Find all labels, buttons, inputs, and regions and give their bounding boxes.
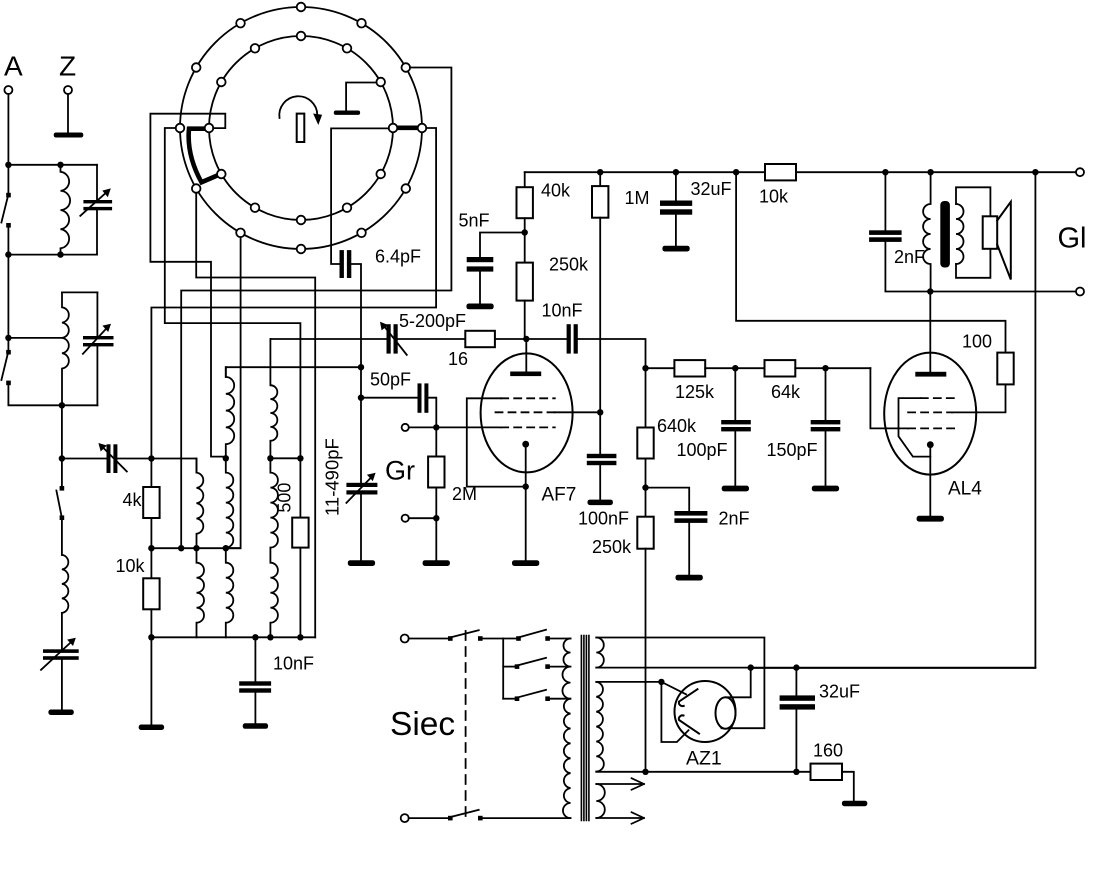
AF7 top cap connection <box>525 339 527 372</box>
variable capacitor C2 (tank2) <box>96 292 98 336</box>
ground (100pF) <box>722 486 749 492</box>
wire: mains upper to switch <box>409 638 451 640</box>
capacitor 150pF <box>825 368 827 420</box>
wire: outer 0 contact loop to 4k top junction <box>151 128 436 458</box>
node: A at tank2 tap <box>5 335 11 341</box>
wire: inner 0 contact to 6.4pF capacitor <box>331 128 389 264</box>
output transformer secondary <box>956 204 964 264</box>
svg-text:AL4: AL4 <box>948 479 982 500</box>
resistor R 500 <box>299 458 301 517</box>
svg-text:100: 100 <box>962 332 992 352</box>
wire: A terminal down <box>7 94 9 195</box>
wire: tank2 bottom down to tuning line <box>61 405 63 458</box>
capacitor 50pF <box>418 383 422 412</box>
node: 10nF junction on bottom rail <box>252 634 258 640</box>
rotary band switch S1 inner ring <box>209 36 393 220</box>
wire: 1M down to AF7 anode node <box>599 218 601 454</box>
wire: left branch below tuning line <box>61 459 63 489</box>
AL4 cathode <box>927 441 934 448</box>
wire: 16 to AF7 grid node <box>495 338 567 340</box>
output transformer core <box>940 201 950 268</box>
resistor R 1M <box>599 172 601 186</box>
svg-text:100nF: 100nF <box>578 509 629 529</box>
capacitor 100nF <box>587 454 617 458</box>
node: 150pF junction <box>822 365 828 371</box>
AF7 cathode <box>522 441 529 448</box>
S1 rotation arrow <box>279 96 317 118</box>
S1 outer ring contacts <box>176 3 427 254</box>
ground (10nF) <box>243 723 268 729</box>
svg-text:Gr: Gr <box>385 456 415 486</box>
terminal A <box>4 86 12 94</box>
svg-text:Siec: Siec <box>390 706 455 743</box>
inductor column3 upper small coil <box>270 385 277 458</box>
wire: inner 180 contact loop to coil column 2 <box>150 114 225 459</box>
svg-text:500: 500 <box>275 483 295 513</box>
S1 inner ring contacts <box>205 32 398 225</box>
HV winding B bottom rail <box>596 771 810 773</box>
ground (bus) <box>348 560 375 566</box>
tap selector line 2 <box>503 666 517 668</box>
ground under Z <box>54 133 84 138</box>
resistor R 10k (decoupling) <box>765 164 796 180</box>
svg-text:11-490pF: 11-490pF <box>322 438 343 516</box>
capacitor 2nF (tone) <box>884 172 886 230</box>
svg-text:Z: Z <box>59 51 76 82</box>
tank1 bottom rail <box>8 254 97 256</box>
wire: HV winding B top to AZ1 anodes <box>596 681 661 683</box>
wire: 40k to 250k <box>524 218 526 262</box>
node: tuning line left <box>59 455 65 461</box>
node: 5nF junction <box>522 229 528 235</box>
svg-text:Gl: Gl <box>1058 223 1087 255</box>
power transformer core <box>581 636 589 821</box>
S1 shaft slot <box>297 114 305 142</box>
node: 2M bottom <box>433 515 439 521</box>
wire: outer 210 contact to coil rail right end <box>196 193 315 638</box>
wire: 250k second down to heater rail <box>645 549 647 772</box>
svg-text:4k: 4k <box>123 490 143 510</box>
wire: 50pF line <box>361 397 418 399</box>
resistor R 64k <box>765 360 796 376</box>
ground (32uF) <box>662 246 689 252</box>
mechanical link (dashed) <box>465 631 467 818</box>
node: 10k bottom junction <box>148 634 154 640</box>
node: B+ rail at 1M <box>597 169 603 175</box>
ground (5nF) <box>466 304 493 310</box>
wire: 160 to ground <box>842 772 854 801</box>
wire: tuning line to coil column1 top <box>151 459 196 473</box>
variable trimmer 5-200pF <box>387 324 391 353</box>
AZ1 upper anode plate <box>679 689 698 706</box>
power transformer heater winding <box>596 784 605 818</box>
wire: switch to coil <box>61 520 63 555</box>
node: 4k/10k junction <box>148 545 154 551</box>
coil bottom rail <box>151 636 315 638</box>
node: B+ rail at 2nF speaker <box>882 169 888 175</box>
node: column3 at bottom rail <box>267 634 273 640</box>
wire: grid chain to AL4 grid <box>870 368 908 428</box>
terminal mains lower <box>401 814 409 822</box>
node: B+ at AZ1 cathode <box>748 664 754 670</box>
svg-text:5nF: 5nF <box>459 211 490 231</box>
ground (2nF) <box>676 575 703 581</box>
rectifier tube AZ1 envelope <box>675 681 736 742</box>
node: AF7 top cap node <box>523 336 529 342</box>
resistor R 160 <box>811 764 843 780</box>
inductor column2 middle coil <box>226 458 234 547</box>
svg-text:2nF: 2nF <box>894 247 925 267</box>
switch tap2 <box>515 664 520 669</box>
wire: 2nF to anode rail <box>885 242 930 292</box>
wire: 32uF to HV bottom rail <box>795 710 797 772</box>
ground (left branch) <box>48 710 73 716</box>
svg-text:32uF: 32uF <box>691 179 732 199</box>
tap selector line 3 <box>503 698 517 700</box>
tank2 top rail <box>62 291 97 293</box>
wire: 640k to 250k second <box>645 459 647 517</box>
svg-text:50pF: 50pF <box>370 370 411 390</box>
svg-text:150pF: 150pF <box>767 440 818 460</box>
node: tank2 bottom junction <box>59 402 65 408</box>
tap selector vertical <box>502 639 504 699</box>
resistor R 100 <box>997 353 1013 385</box>
capacitor 6.4pF <box>340 250 344 278</box>
wire: mains lower to switch <box>409 817 451 819</box>
resistor R 40k <box>524 172 526 187</box>
wire: tuning line with trimmer <box>62 458 107 460</box>
inductor column3 middle coil <box>270 458 278 547</box>
svg-text:32uF: 32uF <box>819 682 860 702</box>
resistor R 640k <box>642 365 648 371</box>
svg-text:160: 160 <box>813 741 843 761</box>
output transformer primary <box>923 172 930 291</box>
node: B+ rail right <box>1032 169 1038 175</box>
AF7 grid rows (dashed) <box>501 397 555 399</box>
wire: to 5nF <box>480 233 525 258</box>
svg-text:2nF: 2nF <box>719 509 750 529</box>
svg-text:100pF: 100pF <box>677 440 728 460</box>
wire: 10k to bottom rail and ground <box>150 609 152 724</box>
ground at S1 inner 30deg contact <box>346 83 376 111</box>
resistor R 4k <box>150 459 152 488</box>
terminal mains upper <box>401 635 409 643</box>
wire: 4k to 10k <box>150 518 152 578</box>
svg-text:640k: 640k <box>657 416 697 436</box>
inductor column2 top coil <box>226 367 234 458</box>
wire: screen feed down and right to 100 resistor <box>736 172 1005 352</box>
heater winding arrows <box>596 778 644 790</box>
switch on left branch <box>60 486 65 491</box>
wire: switch to tap selector <box>480 638 518 640</box>
switch on A line (lower) <box>6 350 11 355</box>
wire: outer 240 contact down to coil column 2 junction <box>226 237 241 548</box>
resistor R 250k (second) <box>637 517 653 549</box>
node: AZ1 anode node <box>658 679 664 685</box>
wire: 5-200pF line down to column3 <box>269 339 271 385</box>
wire: to 2nF <box>646 488 690 511</box>
resistor R 16 <box>465 331 495 347</box>
node: 500 at bottom rail <box>297 634 303 640</box>
vacuum tube AL4 envelope <box>884 353 976 475</box>
node: B+ rail at 32uF <box>673 169 679 175</box>
inductor column1 upper coil <box>197 459 204 549</box>
wire: A line between switches <box>7 227 9 352</box>
S1 rotor wiper left (thick) <box>189 129 223 183</box>
node: bus at column2 line <box>358 364 364 370</box>
wire: column2 top line to long vertical bus <box>226 367 361 377</box>
wire: HV winding A top around AZ1 to filament <box>596 638 764 729</box>
wire: anode node diagonal to upper anode <box>661 682 686 694</box>
AF7 g3 tie wire to cathode <box>467 398 526 486</box>
wire: anode node loop to lower anode <box>661 682 688 742</box>
terminal Gr upper <box>402 424 409 431</box>
node: heater rail at 250k drop <box>642 769 648 775</box>
loudspeaker <box>983 216 998 249</box>
ground (2M) <box>423 560 450 566</box>
node: 500 resistor top <box>297 455 303 461</box>
node: 100pF junction <box>732 365 738 371</box>
wire: trimmer to resistor 16 <box>398 338 466 340</box>
svg-text:10nF: 10nF <box>542 301 583 321</box>
rotary band switch S1 outer ring <box>180 7 422 249</box>
svg-text:250k: 250k <box>592 537 632 557</box>
wire: 32uF to ground <box>675 215 677 246</box>
node: AF7 anode / 100nF <box>597 409 603 415</box>
node: junction line at dial wire <box>178 545 184 551</box>
capacitor 10nF (coupling) <box>567 324 571 353</box>
switch mains lower <box>448 816 453 821</box>
capacitor 10nF (IF bypass) <box>254 637 256 681</box>
capacitor 2nF (AF7) <box>674 511 707 516</box>
svg-text:40k: 40k <box>541 181 571 201</box>
node: A at tank1 top <box>5 162 11 168</box>
node: heater rail at 32uF <box>793 769 799 775</box>
wire: B+ down to filament <box>727 668 751 698</box>
resistor R 250k (screen) <box>517 263 533 301</box>
svg-text:AF7: AF7 <box>542 485 577 506</box>
wire: 100pF to ground <box>734 431 736 485</box>
capacitor 5nF <box>467 257 494 262</box>
wire: 6.4pF to long vertical bus <box>351 264 361 484</box>
power transformer HV winding A <box>596 638 604 668</box>
resistor R 125k <box>674 360 705 376</box>
svg-text:5-200pF: 5-200pF <box>399 311 466 331</box>
wire: 150pF to ground <box>825 431 827 485</box>
power transformer primary winding <box>562 639 570 819</box>
speaker bottom rail to terminal <box>930 291 1076 293</box>
wire: Gr lower to 2M bottom <box>409 517 437 519</box>
inductor column2 lower coil <box>226 548 234 637</box>
terminal Gl feed upper <box>1076 168 1084 176</box>
inductor L2 (tank2 coil, tapped) <box>62 292 69 405</box>
terminal Gl feed lower <box>1076 288 1084 296</box>
AL4 g3 tie to cathode <box>899 398 931 457</box>
svg-text:10nF: 10nF <box>273 654 314 674</box>
node: column2 top junction <box>223 455 229 461</box>
svg-text:1M: 1M <box>625 188 650 208</box>
wire: Gr upper to grid wire <box>409 426 501 428</box>
node: 640k bottom / 2nF <box>642 484 648 490</box>
node: column3 junction <box>267 455 273 461</box>
tank1 top rail <box>8 164 97 166</box>
speaker loop <box>956 187 990 277</box>
switch mains upper <box>448 636 453 641</box>
AL4 screen out to 100 resistor <box>952 384 1005 412</box>
wire: switch to transformer primary bottom <box>480 817 570 819</box>
wire: HV winding A bottom = B+ rail <box>596 667 1035 669</box>
node: junction line at column1 <box>193 545 199 551</box>
wire: 100nF to ground <box>599 465 601 499</box>
power transformer HV winding B <box>596 682 604 772</box>
wire: tank2 tap <box>8 337 62 339</box>
node: AL4 anode at bottom rail <box>927 288 933 294</box>
node: input node <box>433 424 439 430</box>
ground (100nF) <box>588 500 613 506</box>
switch on A line (upper) <box>6 193 11 198</box>
wire: column3 to 500 resistor top <box>270 457 300 459</box>
capacitor 32uF (filter) <box>675 172 677 200</box>
wire: coil to variable capacitor <box>61 613 63 649</box>
inductor column1 lower coil <box>197 548 205 637</box>
grid chain line 125k/64k <box>646 367 675 369</box>
node: B+ at 32uF second <box>793 664 799 670</box>
wire: A line to tank2 bottom rail <box>8 385 97 405</box>
inductor column3 lower coil <box>270 548 278 638</box>
svg-text:16: 16 <box>448 349 468 369</box>
inductor L1 (tank1 coil) <box>61 165 71 255</box>
svg-text:250k: 250k <box>549 255 589 275</box>
wire: long bus to 50pF line <box>358 395 364 401</box>
ground (160) <box>842 801 867 807</box>
terminal Gr lower <box>402 515 409 522</box>
wire: 2nF to ground <box>688 523 690 575</box>
svg-text:64k: 64k <box>771 382 801 402</box>
ground (10k) <box>139 725 164 731</box>
AL4 anode connection <box>929 292 931 372</box>
wire: 5nF to ground <box>479 272 481 304</box>
switch tap1 <box>516 636 521 641</box>
wire: outer 30 contact loop to 4k junction <box>181 68 451 549</box>
S1 rotor bridge right (thick) <box>395 126 417 131</box>
wire: bus below variable capacitor to ground <box>360 495 362 561</box>
ground (AL4 cathode) <box>917 516 944 522</box>
switch tap3 <box>515 696 520 701</box>
resistor R 2M <box>435 427 437 456</box>
wire: 2M bottom to ground <box>435 488 437 561</box>
resistor R 10k <box>143 578 159 609</box>
B+ top rail <box>525 171 1076 173</box>
svg-text:A: A <box>4 51 23 82</box>
wire: grid line 5-200pF to 16 resistor <box>270 338 386 340</box>
capacitor 100pF <box>734 368 736 420</box>
svg-text:10k: 10k <box>759 187 789 207</box>
wire: 250k to AF7 grid node <box>525 301 527 339</box>
ground (AF7 cathode) <box>512 560 539 566</box>
inductor L3 (left branch coil) <box>62 555 68 613</box>
node: B+ rail at screen feed <box>733 169 739 175</box>
variable capacitor (left branch) <box>43 649 79 653</box>
ground (150pF) <box>812 486 839 492</box>
svg-text:6.4pF: 6.4pF <box>375 247 421 267</box>
node: cathode/g3 junction <box>523 483 529 489</box>
node: B+ rail at output transformer <box>927 169 933 175</box>
wire: capacitor to ground <box>61 660 63 710</box>
variable capacitor C1 (tank1) <box>96 165 98 200</box>
svg-text:AZ1: AZ1 <box>686 748 722 770</box>
AF7 anode row2 out to right <box>555 411 600 413</box>
wire: B+ rail down to rectifier output <box>751 172 1036 668</box>
terminal Z <box>64 86 72 94</box>
node: A at tank1 bottom <box>5 251 11 257</box>
AZ1 filament loop <box>716 697 736 729</box>
vacuum tube AF7 envelope <box>481 353 573 472</box>
capacitor 32uF (reservoir) <box>795 668 797 696</box>
wire: 50pF to input node <box>428 398 436 428</box>
wire: Z to ground <box>67 94 69 133</box>
variable capacitor 11-490pF on bus <box>346 483 377 487</box>
wire: outer 180 contact to 500-ohm column <box>165 128 301 458</box>
AL4 grid rows (dashed) <box>921 397 960 399</box>
variable trimmer capacitor (antenna) <box>107 444 111 473</box>
svg-text:10k: 10k <box>116 556 146 576</box>
wire: 4k/10k junction line to coils <box>151 547 240 549</box>
node: junction line at column2 <box>223 545 229 551</box>
wire: 10nF to 640k top <box>578 339 646 368</box>
node: 4k top junction <box>148 455 154 461</box>
AZ1 lower anode plate <box>679 715 699 733</box>
svg-text:125k: 125k <box>675 382 715 402</box>
